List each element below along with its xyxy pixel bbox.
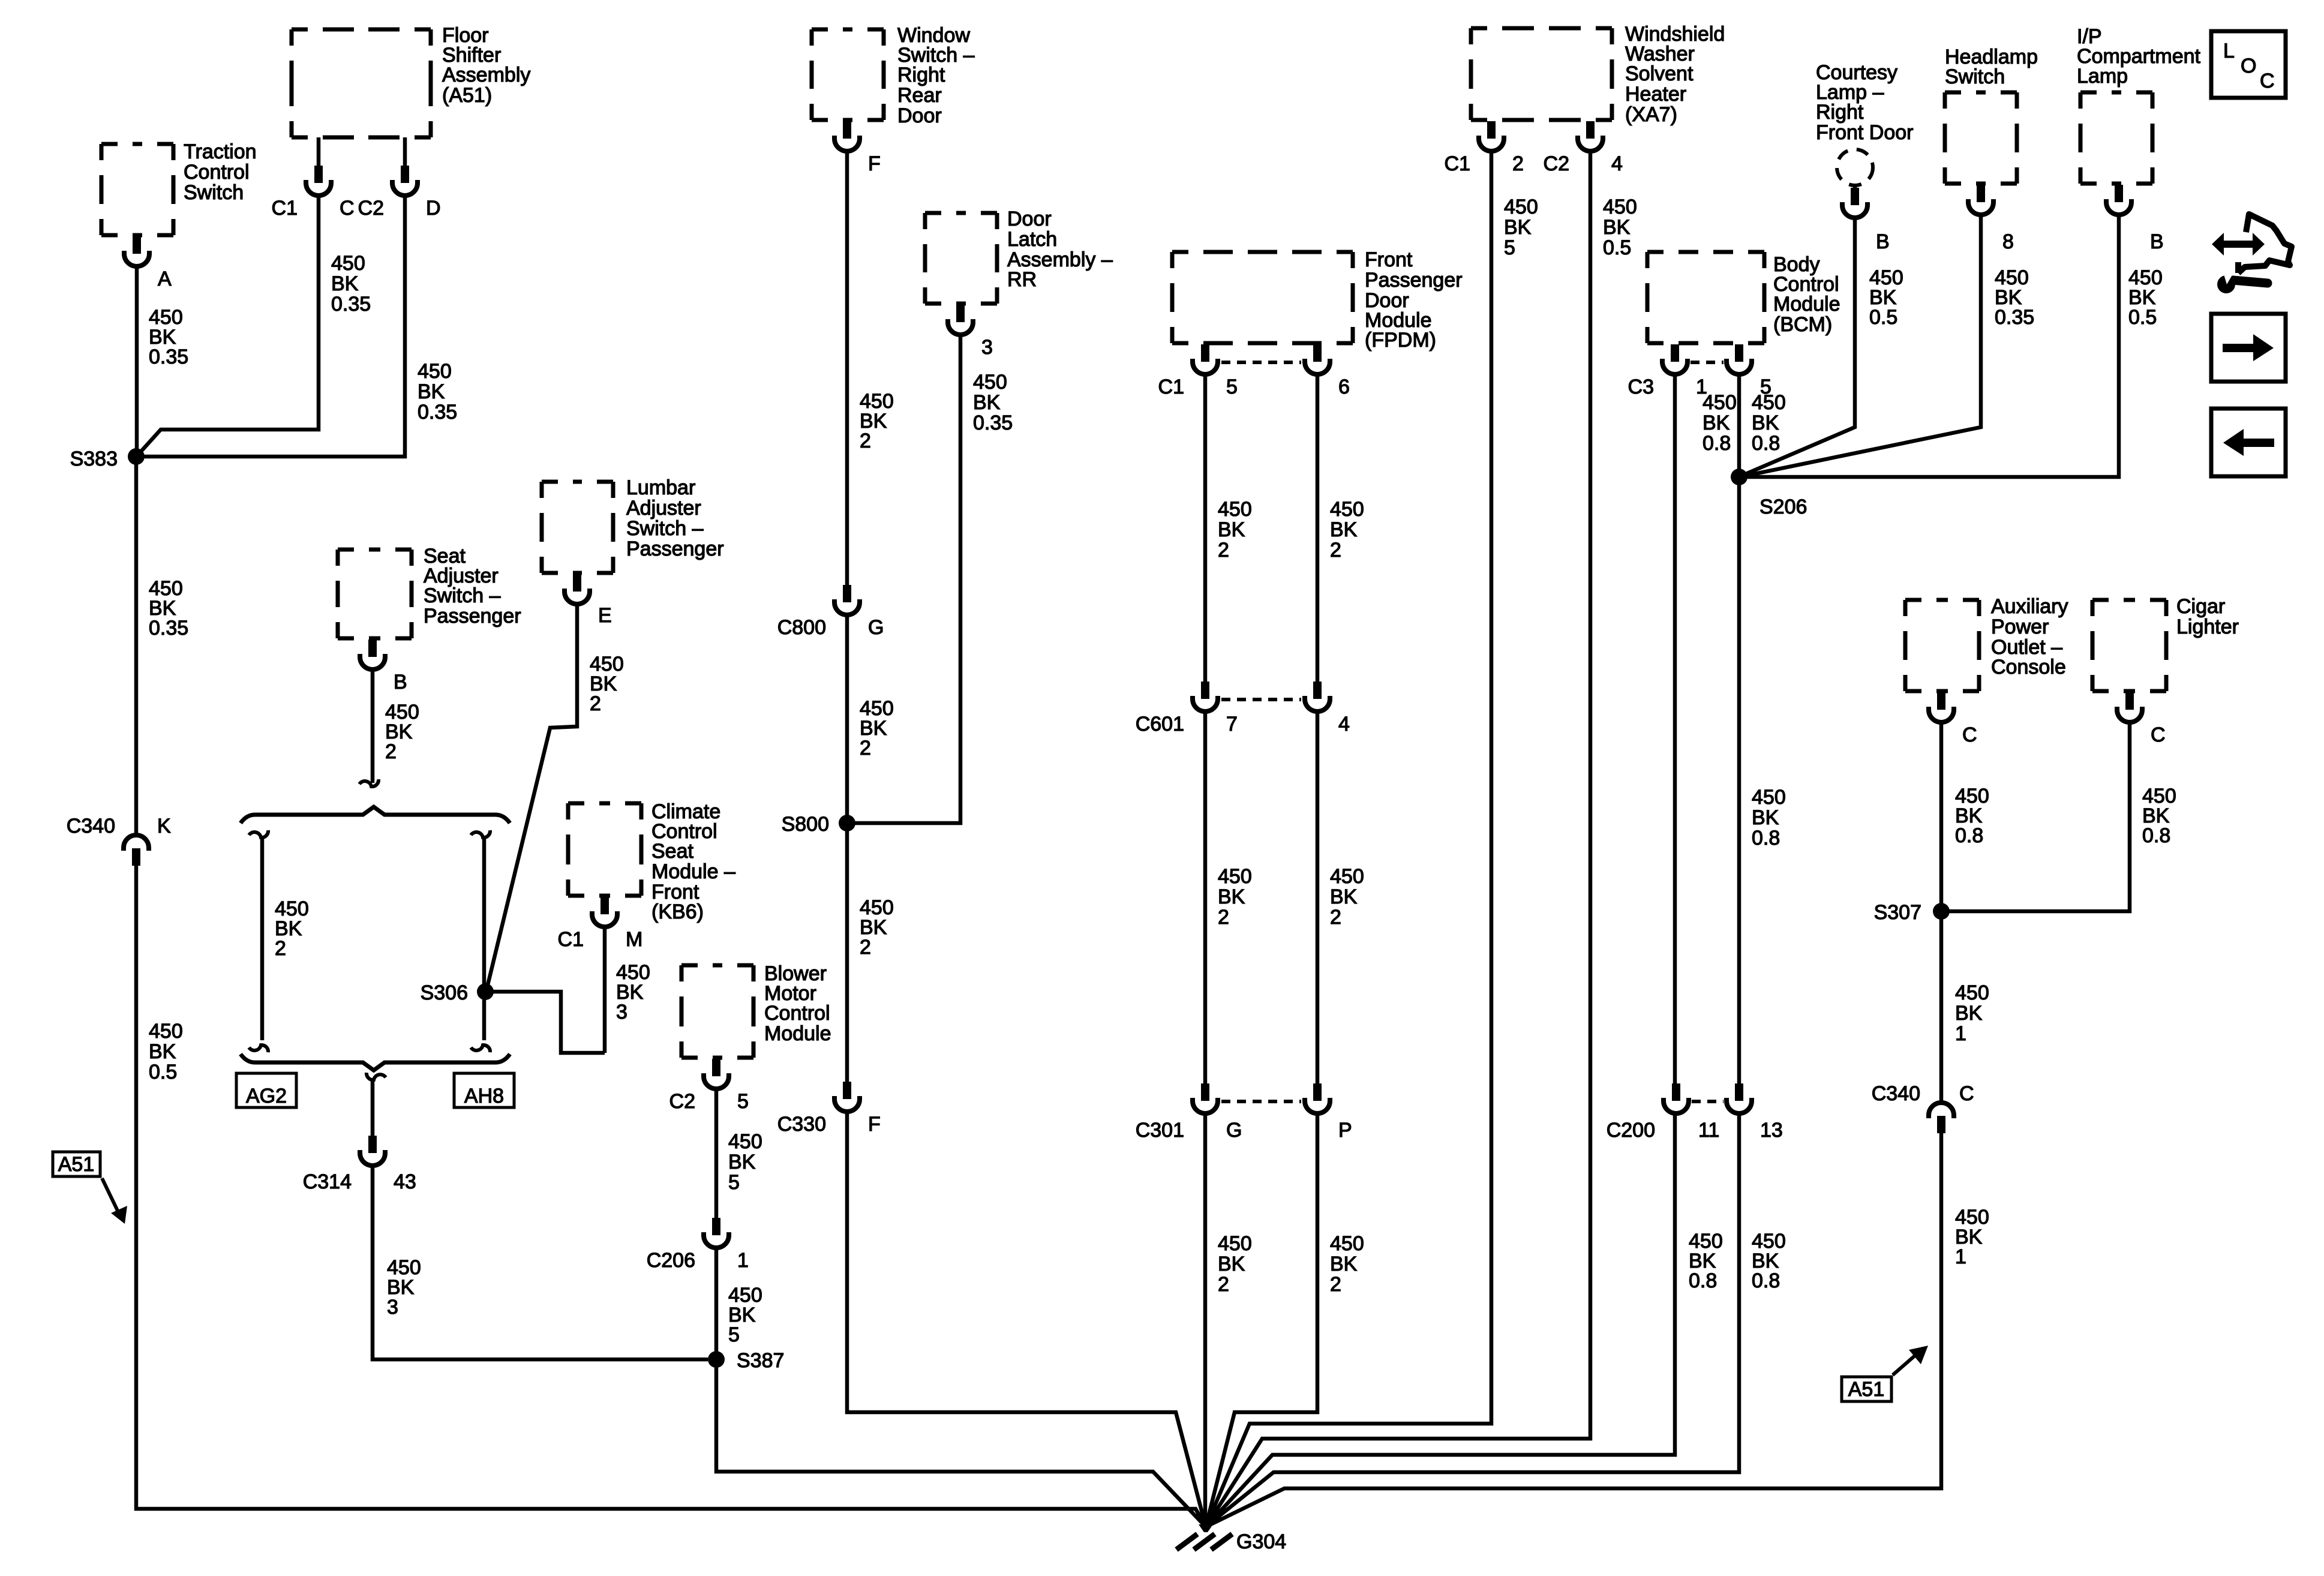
svg-text:(BCM): (BCM)	[1773, 313, 1832, 336]
svg-text:BK: BK	[973, 391, 1001, 414]
svg-text:Console: Console	[1991, 656, 2066, 679]
svg-text:4: 4	[1611, 152, 1623, 175]
svg-text:C: C	[340, 197, 355, 220]
svg-text:450: 450	[1504, 196, 1538, 218]
svg-text:C2: C2	[1544, 152, 1569, 175]
svg-text:4: 4	[1338, 713, 1350, 736]
svg-text:0.8: 0.8	[1752, 827, 1780, 849]
svg-text:C2: C2	[358, 197, 384, 220]
svg-text:2: 2	[860, 936, 871, 959]
svg-text:C800: C800	[777, 616, 826, 639]
svg-text:F: F	[868, 1113, 881, 1136]
svg-text:450: 450	[1330, 1232, 1364, 1255]
svg-text:A: A	[158, 268, 172, 290]
svg-text:A51: A51	[1848, 1378, 1885, 1401]
svg-text:D: D	[426, 197, 441, 220]
svg-text:3: 3	[981, 336, 993, 359]
svg-text:Adjuster: Adjuster	[626, 497, 701, 520]
svg-text:0.35: 0.35	[331, 293, 371, 316]
svg-text:450: 450	[1703, 391, 1737, 414]
svg-text:C206: C206	[647, 1249, 695, 1272]
svg-text:L: L	[2223, 40, 2235, 62]
svg-text:(FPDM): (FPDM)	[1365, 329, 1436, 352]
svg-text:5: 5	[728, 1171, 740, 1194]
svg-text:S306: S306	[421, 981, 468, 1004]
svg-text:C3: C3	[1628, 376, 1654, 398]
svg-text:Module: Module	[764, 1022, 831, 1045]
svg-text:C: C	[2260, 70, 2275, 92]
svg-text:2: 2	[1218, 1273, 1229, 1296]
svg-text:S383: S383	[70, 448, 118, 470]
svg-text:(KB6): (KB6)	[651, 900, 704, 923]
svg-text:C2: C2	[669, 1090, 695, 1113]
svg-text:Traction: Traction	[184, 140, 257, 163]
svg-text:0.35: 0.35	[418, 401, 457, 424]
svg-text:Passenger: Passenger	[626, 538, 724, 560]
svg-text:Seat: Seat	[651, 840, 693, 863]
svg-text:BK: BK	[1752, 806, 1779, 829]
svg-text:C601: C601	[1136, 713, 1184, 736]
svg-text:450: 450	[1752, 391, 1786, 414]
svg-text:E: E	[598, 604, 612, 627]
svg-text:0.35: 0.35	[149, 617, 188, 640]
svg-text:450: 450	[1955, 981, 1989, 1004]
svg-text:BK: BK	[728, 1151, 756, 1173]
svg-text:Solvent: Solvent	[1625, 62, 1694, 85]
svg-text:1: 1	[1955, 1245, 1966, 1268]
svg-text:2: 2	[1330, 539, 1341, 562]
svg-text:2: 2	[1512, 152, 1524, 175]
svg-text:Front: Front	[1365, 248, 1413, 271]
svg-text:BK: BK	[1955, 1002, 1983, 1025]
svg-text:2: 2	[1218, 906, 1229, 929]
svg-text:C1: C1	[1158, 376, 1184, 398]
svg-text:450: 450	[1752, 786, 1786, 809]
svg-text:BK: BK	[1330, 518, 1358, 541]
svg-text:Control: Control	[764, 1002, 830, 1025]
svg-text:2: 2	[1218, 539, 1229, 562]
svg-text:450: 450	[973, 371, 1007, 394]
svg-text:0.5: 0.5	[1603, 236, 1631, 259]
svg-text:Lamp: Lamp	[2077, 65, 2128, 88]
svg-text:6: 6	[1338, 376, 1350, 398]
svg-text:C: C	[2151, 724, 2166, 746]
svg-text:Cigar: Cigar	[2176, 595, 2225, 618]
svg-text:M: M	[626, 928, 642, 951]
svg-text:A51: A51	[58, 1153, 95, 1176]
svg-text:C330: C330	[777, 1113, 826, 1136]
svg-text:13: 13	[1760, 1119, 1783, 1142]
svg-text:BK: BK	[331, 272, 359, 295]
svg-text:Passenger: Passenger	[1365, 269, 1463, 292]
svg-text:Switch: Switch	[1945, 65, 2005, 88]
svg-text:Passenger: Passenger	[424, 605, 521, 628]
svg-text:BK: BK	[1218, 1253, 1245, 1275]
svg-text:450: 450	[1218, 1232, 1252, 1255]
svg-text:0.35: 0.35	[973, 412, 1013, 434]
svg-text:BK: BK	[149, 1040, 176, 1063]
svg-text:3: 3	[616, 1001, 627, 1023]
svg-text:P: P	[1338, 1119, 1352, 1142]
svg-text:S206: S206	[1759, 496, 1807, 518]
svg-text:C340: C340	[67, 815, 115, 837]
svg-text:2: 2	[590, 692, 601, 715]
svg-text:450: 450	[418, 360, 452, 383]
svg-text:BK: BK	[1218, 885, 1245, 908]
svg-text:C: C	[1959, 1082, 1974, 1105]
svg-text:Control: Control	[184, 161, 250, 184]
svg-text:C1: C1	[272, 197, 298, 220]
svg-text:C1: C1	[558, 928, 584, 951]
svg-text:K: K	[157, 815, 171, 837]
svg-text:G: G	[868, 616, 884, 639]
svg-text:B: B	[1876, 230, 1890, 253]
svg-text:450: 450	[728, 1130, 762, 1153]
svg-text:BK: BK	[1330, 1253, 1358, 1275]
svg-text:0.5: 0.5	[2128, 306, 2157, 329]
svg-text:BK: BK	[1218, 518, 1245, 541]
svg-text:450: 450	[1330, 498, 1364, 521]
svg-text:0.8: 0.8	[1703, 432, 1731, 455]
svg-text:0.8: 0.8	[1955, 824, 1983, 847]
svg-text:0.8: 0.8	[1752, 1269, 1780, 1292]
svg-text:Right: Right	[1816, 101, 1864, 124]
svg-text:5: 5	[728, 1323, 740, 1346]
svg-text:S307: S307	[1874, 901, 1921, 924]
svg-text:0.35: 0.35	[149, 346, 188, 368]
svg-text:450: 450	[1603, 196, 1637, 218]
svg-text:2: 2	[275, 937, 286, 960]
svg-text:450: 450	[331, 252, 365, 275]
svg-text:3: 3	[387, 1296, 398, 1319]
svg-text:2: 2	[385, 740, 397, 763]
svg-text:Module –: Module –	[651, 860, 735, 883]
svg-text:C301: C301	[1136, 1119, 1184, 1142]
svg-text:0.8: 0.8	[1689, 1269, 1717, 1292]
svg-text:450: 450	[1218, 498, 1252, 521]
svg-text:5: 5	[1226, 376, 1238, 398]
svg-text:C: C	[1962, 724, 1977, 746]
svg-text:RR: RR	[1007, 268, 1037, 291]
svg-text:Heater: Heater	[1625, 83, 1686, 106]
svg-text:Rear: Rear	[897, 84, 942, 107]
svg-text:BK: BK	[418, 380, 445, 403]
svg-text:BK: BK	[1703, 412, 1730, 434]
svg-text:0.35: 0.35	[1995, 306, 2034, 329]
svg-text:AH8: AH8	[464, 1085, 504, 1107]
svg-text:C1: C1	[1445, 152, 1470, 175]
svg-text:5: 5	[737, 1090, 749, 1113]
svg-text:8: 8	[2002, 230, 2014, 253]
svg-text:Auxiliary: Auxiliary	[1991, 595, 2068, 618]
svg-text:0.8: 0.8	[2142, 824, 2170, 847]
svg-text:BK: BK	[1504, 216, 1532, 239]
svg-text:Switch –: Switch –	[424, 584, 501, 607]
svg-text:G: G	[1226, 1119, 1242, 1142]
svg-text:Power: Power	[1991, 616, 2049, 638]
svg-text:450: 450	[1330, 865, 1364, 888]
svg-text:Switch: Switch	[184, 181, 244, 204]
svg-text:Latch: Latch	[1007, 228, 1057, 251]
svg-text:7: 7	[1226, 713, 1238, 736]
svg-text:43: 43	[394, 1170, 416, 1193]
svg-text:G304: G304	[1236, 1530, 1286, 1553]
svg-text:Switch –: Switch –	[626, 517, 704, 540]
svg-text:Assembly: Assembly	[442, 64, 530, 86]
svg-text:5: 5	[1504, 236, 1515, 259]
svg-text:B: B	[2150, 230, 2164, 253]
svg-text:0.5: 0.5	[1869, 306, 1897, 329]
svg-text:C314: C314	[303, 1170, 352, 1193]
svg-text:(A51): (A51)	[442, 84, 492, 107]
svg-text:S387: S387	[737, 1349, 784, 1372]
svg-text:2: 2	[860, 737, 871, 760]
svg-text:2: 2	[1330, 906, 1341, 929]
svg-text:11: 11	[1698, 1119, 1719, 1142]
svg-text:Lumbar: Lumbar	[626, 476, 695, 499]
svg-text:Front Door: Front Door	[1816, 121, 1914, 144]
svg-text:S800: S800	[782, 813, 829, 836]
svg-text:Door: Door	[1007, 208, 1052, 230]
svg-text:BK: BK	[1330, 885, 1358, 908]
svg-text:Lighter: Lighter	[2176, 616, 2239, 638]
svg-text:450: 450	[149, 1020, 183, 1043]
svg-text:Right: Right	[897, 64, 945, 86]
svg-text:O: O	[2241, 55, 2256, 77]
svg-text:AG2: AG2	[246, 1085, 287, 1107]
svg-text:Module: Module	[1773, 293, 1840, 316]
svg-text:0.5: 0.5	[149, 1061, 177, 1083]
svg-text:2: 2	[860, 430, 871, 452]
svg-text:C200: C200	[1607, 1119, 1655, 1142]
svg-text:0.8: 0.8	[1752, 432, 1780, 455]
svg-text:BK: BK	[1752, 412, 1779, 434]
svg-text:Door: Door	[897, 104, 942, 127]
svg-text:F: F	[868, 152, 881, 175]
svg-text:(XA7): (XA7)	[1625, 103, 1677, 126]
svg-text:1: 1	[737, 1249, 749, 1272]
svg-text:2: 2	[1330, 1273, 1341, 1296]
svg-text:B: B	[394, 671, 407, 694]
svg-text:450: 450	[1218, 865, 1252, 888]
svg-text:1: 1	[1955, 1022, 1966, 1045]
svg-text:BK: BK	[1603, 216, 1631, 239]
svg-text:C340: C340	[1872, 1082, 1920, 1105]
